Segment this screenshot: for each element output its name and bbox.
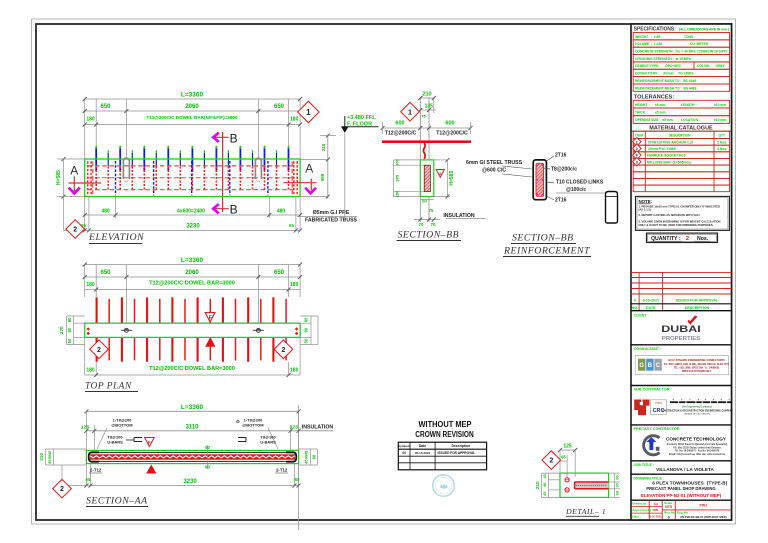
svg-text:U-BARS: U-BARS [107,440,123,445]
left dim chain of section-bb [393,160,395,197]
svg-text:NOTE:: NOTE: [639,199,653,204]
svg-text:AH: AH [653,502,658,506]
svg-text:60: 60 [304,317,309,322]
corner bars (magenta dots) [537,165,539,167]
right 315/585 dim chain [327,134,329,198]
svg-text:CONSTRUCTION & RECONSTRUCTION: CONSTRUCTION & RECONSTRUCTION ENGINEERIN… [661,409,734,412]
top plan extension lines [84,265,86,298]
mid green 90 dims [207,445,209,469]
svg-text:4x600=2400: 4x600=2400 [177,208,205,214]
svg-text:T12@200C/C: T12@200C/C [385,131,417,137]
svg-text:DESCRIPTION: DESCRIPTION [685,306,710,310]
svg-text:210: 210 [39,453,44,461]
red triangle marker w/3 [436,170,444,178]
svg-text:2060: 2060 [185,104,199,110]
internal blue bars [115,161,117,195]
svg-text:385: 385 [395,174,400,181]
svg-text:90: 90 [543,483,547,487]
svg-text:65: 65 [295,477,300,482]
svg-text:650: 650 [274,270,285,276]
red solid triangle apex-up [205,337,215,347]
svg-text:Date :: Date : [632,515,641,519]
svg-text:Tel. No. 04-3400077 - Fax No.: Tel. No. 04-3400077 - Fax No. 04-3400078 [675,450,720,453]
svg-text:Drawn by :: Drawn by : [632,502,648,506]
svg-text:±10 mm: ±10 mm [714,103,726,107]
strip end marks (red) [86,327,90,335]
svg-text:50: 50 [304,338,309,343]
svg-text:A: A [70,163,78,177]
svg-text:210: 210 [422,92,431,98]
svg-text:CU. METER: CU. METER [690,42,709,46]
svg-text:2-T12: 2-T12 [276,468,288,473]
svg-text:LENGTH :: LENGTH : [681,103,697,107]
svg-text:585: 585 [320,173,325,181]
bottom info grid [648,500,650,519]
svg-text:600: 600 [445,120,454,126]
svg-text:LOCATION :: LOCATION : [681,118,700,122]
svg-text:6mm GI STEEL TRUSS: 6mm GI STEEL TRUSS [466,160,523,166]
svg-text:90: 90 [312,454,317,459]
svg-text:@BOTTOM: @BOTTOM [111,423,133,428]
svg-text:INSULATION: INSULATION [443,213,475,219]
svg-text:T12@200C/C DOWEL BAR=3000: T12@200C/C DOWEL BAR=3000 [149,366,235,372]
svg-text:180: 180 [86,117,95,123]
svg-text:ONLY & IS NOT TO BE USED FOR O: ONLY & IS NOT TO BE USED FOR ORDERING PU… [639,223,714,227]
section-aa panel: green outline [86,450,298,463]
svg-text:T10 CLOSED LINKS: T10 CLOSED LINKS [556,180,604,186]
svg-text:70: 70 [418,222,424,227]
revision mini table [398,442,486,470]
slab thick red line [382,140,471,143]
svg-text:A: A [305,161,313,175]
svg-text:T8@200c/c: T8@200c/c [551,167,577,173]
diamond 1 (elevation) [298,101,319,122]
svg-text:(ALL DIMENSIONS ARE IN mm.): (ALL DIMENSIONS ARE IN mm.) [679,27,729,31]
svg-text:ITEM: ITEM [635,133,643,137]
svg-text:2T16: 2T16 [555,152,567,158]
svg-text:VN-PW-KP-B2-01 (WITHOUT MEP): VN-PW-KP-B2-01 (WITHOUT MEP) [680,515,727,519]
svg-text:650: 650 [100,270,111,276]
svg-text:100: 100 [395,158,400,165]
svg-text:@BOTTOM: @BOTTOM [242,423,264,428]
svg-text:Date: Date [419,444,426,448]
right dim chain [310,449,312,465]
svg-text:6-10-2021: 6-10-2021 [643,299,659,303]
diamond 2 (detail-1) [542,451,561,470]
svg-text:125: 125 [290,424,298,430]
svg-text:(Formerly Mohd Saeed Al Qaissi: (Formerly Mohd Saeed Al Qaissieh Concret… [667,443,728,446]
svg-text:B: B [230,131,238,145]
lifting anchors in plan [121,328,132,332]
top plan bottom dim 180/dowel [85,374,300,376]
red dowel squiggle [424,143,426,159]
svg-text:125: 125 [563,444,572,450]
svg-text:PRECAST PANEL SHOP DRAWING: PRECAST PANEL SHOP DRAWING [646,486,715,491]
svg-text:CONCO: CONCO [655,402,663,404]
svg-text:VILLANOVA / LA VIOLETA: VILLANOVA / LA VIOLETA [656,467,714,472]
svg-text:G: G [639,363,644,369]
detail-1 green rect [560,473,609,497]
svg-text:@100c/c: @100c/c [566,187,586,193]
svg-text:TOP PLAN: TOP PLAN [85,382,132,392]
detail-1 right dims [614,473,616,497]
svg-text:0: 0 [634,299,636,303]
svg-text:50: 50 [67,338,72,343]
svg-text:90: 90 [304,327,309,332]
svg-text:CONCRETE STRENGTH : fcu = 40 M: CONCRETE STRENGTH : fcu = 40 MPa (CUBE) … [635,50,728,54]
svg-text:P.O. Box 31520 Dubai, United A: P.O. Box 31520 Dubai, United Arab Emirat… [673,446,722,449]
svg-text:180: 180 [290,282,299,288]
svg-text:T12@200C/C: T12@200C/C [436,131,468,137]
svg-text:2-T12: 2-T12 [90,468,102,473]
svg-text:REINFORCEMENT: REINFORCEMENT [503,246,591,257]
svg-text:65: 65 [86,477,91,482]
svg-text:60: 60 [67,317,72,322]
dowel continuation dotted columns (red) [95,167,97,190]
svg-text:2 Nos.: 2 Nos. [717,140,727,144]
svg-text:OPENING SIZE : ±5 mm.: OPENING SIZE : ±5 mm. [635,118,674,122]
svg-text:WITHOUT MEP: WITHOUT MEP [419,420,472,429]
svg-text:TEL: 0521 3886, 65432 JAN Y.L: TEL: 0521 3886, 65432 JAN Y.L. 34098833 [674,366,720,369]
elevation dim row 180 / dowel text [85,124,300,126]
svg-text:650: 650 [274,104,285,110]
svg-text:GULF DYNAMIC ENGINEERING CONSU: GULF DYNAMIC ENGINEERING CONSULTANTS [668,359,725,362]
svg-text:30: 30 [615,483,619,487]
H=585 right dim [447,160,449,197]
svg-text:PRECAST CONTRACTOR: PRECAST CONTRACTOR [634,427,680,431]
diamond 2 (section-aa) [53,479,72,498]
svg-text:±5 mm.: ±5 mm. [655,111,666,115]
svg-text:60: 60 [615,491,619,495]
svg-text:VOLUME : 1.138: VOLUME : 1.138 [635,42,662,46]
svg-text:1: 1 [408,107,412,116]
svg-text:ELEVATION: ELEVATION [88,232,144,243]
svg-text:180: 180 [290,117,299,123]
svg-text:B: B [648,363,653,369]
svg-text:±5 mm.: ±5 mm. [655,103,666,107]
plan side dims right [310,316,312,345]
svg-text:Rev. No.: Rev. No. [664,511,676,515]
svg-text:SUB CONTRACTOR: SUB CONTRACTOR [634,388,670,392]
elevation dim row L=3360 [85,98,300,100]
svg-text:DESCRIPTION: DESCRIPTION [669,133,691,137]
dim 135 [420,109,436,111]
lifting hooks (grey) [123,158,129,179]
svg-text:INSULATION: INSULATION [302,425,334,431]
svg-text:3230: 3230 [186,223,200,229]
elevation bottom dim row 480/2400/480 [85,214,300,216]
svg-text:SECTION–BB: SECTION–BB [398,230,460,241]
svg-text:H=585: H=585 [56,170,62,185]
top plan panel strip (green) [85,323,300,337]
svg-text:650: 650 [100,104,111,110]
svg-text:CROWN REVISION: CROWN REVISION [415,430,474,439]
detail-1 left dims [541,473,543,497]
svg-text:U-BARS: U-BARS [260,440,276,445]
section cut B top: line, arrow, label [222,132,224,197]
svg-text:DUBAI: DUBAI [661,324,701,334]
dims 600/600 [383,127,471,129]
svg-text:Drg. No.: Drg. No. [677,511,689,515]
quantity box [647,233,718,242]
svg-text:CEMENT TYPE: OPC+SRC: CEMENT TYPE: OPC+SRC [635,64,682,68]
svg-text:20mm PVC TUBE: 20mm PVC TUBE [648,147,677,151]
svg-text:2. REPORT CASTING US SEPARATE: 2. REPORT CASTING US SEPARATE WITH VALY [639,213,701,217]
svg-text:(TYPE-B): (TYPE-B) [707,481,728,486]
svg-text:180: 180 [86,282,95,288]
svg-text:70: 70 [430,222,436,227]
section-aa bottom dim 3230 [64,485,299,487]
section-aa dim L=3360 [86,410,298,412]
svg-text:(SHARE OF CRC GROUP): (SHARE OF CRC GROUP) [684,413,710,416]
svg-text:NTS: NTS [665,505,673,509]
svg-text:Ø5mm G.I PRE: Ø5mm G.I PRE [313,210,350,216]
svg-text:L=3360: L=3360 [181,404,204,411]
section-aa extension lines [85,411,87,450]
top plan dim 180 / dowel text [85,289,300,291]
svg-text:2: 2 [686,236,689,242]
svg-text:WEIGHT : 2.85: WEIGHT : 2.85 [635,35,660,39]
elevation dim row 650/2060/650 [85,110,300,112]
svg-text:6-10-2021: 6-10-2021 [650,515,662,519]
top plan dim L=3360 [85,264,300,266]
svg-text:+3.480 FFL: +3.480 FFL [347,115,376,121]
svg-text:SPECIFICATIONS:: SPECIFICATIONS: [634,27,676,33]
svg-text:75: 75 [421,114,426,119]
revision table [631,271,732,273]
svg-text:Description: Description [451,444,470,448]
svg-text:CRUSHING STRENGTH : at 15 MPa: CRUSHING STRENGTH : at 15 MPa [635,57,691,61]
red dashed reinforcement outline inside panel [88,165,297,167]
svg-text:H=585: H=585 [449,171,455,186]
svg-text:45: 45 [304,451,308,455]
svg-text:ELEVATION PP-B2-01 (WITHOUT ME: ELEVATION PP-B2-01 (WITHOUT MEP) [641,493,722,498]
svg-text:270: 270 [59,326,64,334]
svg-text:L=3360: L=3360 [181,92,204,99]
svg-text:125: 125 [81,424,89,430]
section-aa panel interior [90,452,296,454]
svg-text:60: 60 [615,475,619,479]
svg-text:F: F [209,315,212,321]
svg-text:TONS: TONS [684,35,694,39]
svg-text:L=3360: L=3360 [181,257,204,264]
svg-text:2: 2 [549,458,553,465]
svg-text:480: 480 [277,208,286,214]
panel outline (green) [85,159,300,197]
svg-text:2060: 2060 [185,270,199,276]
svg-text:2T16: 2T16 [555,198,567,204]
note box [636,196,730,230]
svg-text:(AS 1:1.5): (AS 1:1.5) [639,208,652,212]
svg-text:HEIGHT :: HEIGHT : [635,103,649,107]
svg-text:SECTION–AA: SECTION–AA [86,496,148,507]
svg-text:TOLERANCES:: TOLERANCES: [634,94,674,100]
U-bar end caps [89,452,99,461]
leader labels [547,156,555,161]
svg-text:45: 45 [543,474,547,478]
dim 210 [420,97,434,99]
svg-text:MN: MN [653,508,659,512]
svg-text:Approved by :: Approved by : [632,508,653,512]
svg-text:135: 135 [425,104,434,110]
svg-text:00: 00 [402,451,406,455]
svg-text:3230: 3230 [183,479,197,485]
svg-text:2: 2 [73,227,77,234]
svg-text:CONSULTANT :: CONSULTANT : [634,347,662,351]
svg-text:±10 mm.: ±10 mm. [714,118,727,122]
svg-text:600: 600 [395,120,404,126]
svg-text:M6 LONG BAR (L=545mm): M6 LONG BAR (L=545mm) [647,160,691,164]
svg-text:Symbols: Symbols [398,444,410,448]
svg-text:P.O. BOX 118855, DXB 12 DBL, D: P.O. BOX 118855, DXB 12 DBL, DHCMG CIRCL… [664,363,730,366]
anchor pocket shape [606,192,618,224]
end zone dashed verticals [87,161,89,194]
svg-text:315: 315 [321,143,326,151]
svg-text:90: 90 [205,445,210,450]
svg-text:T12@200C/C DOWEL BAR(N/F&F/F)=: T12@200C/C DOWEL BAR(N/F&F/F)=3600 [146,115,238,120]
svg-text:90: 90 [205,465,210,470]
svg-text:3110: 3110 [185,424,199,430]
title block outer box [631,24,732,520]
svg-text:45: 45 [543,491,547,495]
reinforcement cage outline [533,160,546,200]
svg-text:CONCRETE TECHNOLOGY: CONCRETE TECHNOLOGY [666,436,726,441]
svg-text:FERRULE SOCKET M16: FERRULE SOCKET M16 [647,154,686,158]
elevation extension lines [84,99,86,159]
F triangle (open, apex down) [205,313,215,322]
svg-text:××: ×× [124,180,128,184]
svg-text:PW1: PW1 [700,503,708,507]
svg-text:2: 2 [60,486,64,493]
svg-text:DATE: DATE [646,306,656,310]
svg-text:DETAIL– 1: DETAIL– 1 [565,507,606,516]
diamond 2 (elevation left) [66,220,85,239]
svg-text:REINFORCEMENT BARS TO : BS 44: REINFORCEMENT BARS TO : BS 4449 [635,79,696,83]
svg-text:2: 2 [97,347,101,354]
detail-1 dims top [560,449,575,451]
svg-text:CLIENT :: CLIENT : [634,313,649,317]
approval stamp [433,475,455,497]
svg-text:Email: info@contech.ae Web si: Email: info@contech.ae Web site: www.con… [669,453,726,456]
svg-text:65: 65 [289,223,294,228]
small red open triangle [145,438,155,447]
svg-text:150: 150 [395,190,400,197]
plan side dims left [66,316,68,345]
svg-text:@600 C/C: @600 C/C [482,168,506,174]
svg-text:5T0N LIFTING ANCHOR 1.3t: 5T0N LIFTING ANCHOR 1.3t [648,140,694,144]
svg-text:65: 65 [561,455,566,460]
svg-text:0: 0 [668,515,670,519]
svg-text:THICK. :: THICK. : [635,111,648,115]
svg-text:50: 50 [422,198,427,203]
red solid triangle below [146,465,156,474]
elevation bottom dim row 3230 [64,229,301,231]
svg-text:1: 1 [306,108,311,117]
detail-1 red bar w/ hatch [575,482,609,489]
diamonds 2 on plan [90,340,109,359]
svg-text:210: 210 [535,481,540,489]
svg-text:SECTION–BB: SECTION–BB [512,233,574,244]
svg-text:180: 180 [290,368,299,374]
svg-text:480: 480 [101,208,110,214]
svg-text:B: B [230,203,238,217]
svg-text:45: 45 [48,459,52,463]
svg-text:QTY: QTY [719,133,726,137]
svg-text:180: 180 [86,368,95,374]
svg-text:NO.: NO. [632,306,638,310]
svg-text:ISSUED FOR APPROVAL: ISSUED FOR APPROVAL [676,299,719,303]
svg-text:ISSUED FOR APPROVAL: ISSUED FOR APPROVAL [438,451,476,455]
section-bb wall lines [419,98,421,160]
section cut B bottom [222,197,224,213]
section-bb panel green rect [420,160,434,197]
svg-text:45: 45 [304,459,308,463]
diamond 1 (section-bb) [401,102,420,121]
svg-text:90: 90 [67,327,72,332]
left dim chain [45,449,47,465]
svg-text:WWW.GULFDYNAMIC.NET: WWW.GULFDYNAMIC.NET [682,370,712,373]
svg-text:T12@200C/C DOWEL BAR=3000: T12@200C/C DOWEL BAR=3000 [149,281,235,287]
svg-text:45: 45 [48,451,52,455]
svg-text:FABRICATED TRUSS: FABRICATED TRUSS [305,218,358,224]
svg-text:90: 90 [304,455,308,459]
svg-text:C: C [656,363,661,369]
top plan dim 650/2060/650 [85,276,300,278]
svg-text:(An Engineering Company): (An Engineering Company) [682,406,712,409]
anchor circles [565,478,569,482]
svg-text:JOB TITLE :: JOB TITLE : [634,463,655,467]
svg-text:6 PLEX TOWNHOUSES: 6 PLEX TOWNHOUSES [652,481,704,486]
section-aa dim 125/3110/125 [86,430,333,432]
svg-text:MATERIAL CATALOGUE: MATERIAL CATALOGUE [649,125,713,131]
svg-text:××: ×× [256,180,260,184]
svg-text:COVER TO RF : 30 mm TO: COVER TO RF : 30 mm TO LINKS [635,72,694,76]
svg-text:4 Nos.: 4 Nos. [717,147,727,151]
svg-text:F: F [148,440,151,445]
svg-text:COLOR: GREY: COLOR: GREY [697,64,726,68]
svg-text:REINFORCEMENT MESH TO : BS 44: REINFORCEMENT MESH TO : BS 4483 [635,86,696,90]
top plan dowel bars (red verticals) [96,297,98,361]
hatched bar inside [424,165,430,192]
svg-text:90: 90 [48,455,52,459]
svg-text:2: 2 [281,347,285,354]
svg-text:PROPERTIES: PROPERTIES [662,336,701,342]
dowel bars (blue) above/into panel [95,148,97,170]
svg-text:Scale :: Scale : [664,501,674,505]
svg-text:05-10-2021: 05-10-2021 [415,451,431,455]
svg-text:⊙: ⊙ [236,419,240,424]
svg-text:75: 75 [429,208,434,213]
